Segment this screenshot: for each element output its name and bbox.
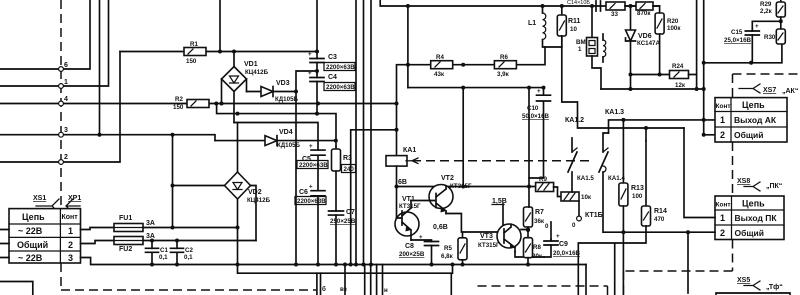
resistor R8 <box>524 238 543 267</box>
svg-text:2: 2 <box>720 228 725 238</box>
svg-text:2: 2 <box>68 240 73 250</box>
svg-text:XS1: XS1 <box>33 195 46 202</box>
wire VD1 bottom rail <box>234 123 318 151</box>
svg-text:6: 6 <box>64 62 68 69</box>
svg-text:КЦ412Б: КЦ412Б <box>247 197 271 204</box>
vertical x407.9 <box>406 4 410 67</box>
svg-text:2: 2 <box>720 130 725 140</box>
svg-text:R30: R30 <box>764 34 776 41</box>
node 4 <box>59 96 68 106</box>
wire input 1 <box>0 0 109 86</box>
svg-text:10: 10 <box>570 26 577 33</box>
svg-text:R24: R24 <box>672 63 684 70</box>
svg-text:С2: С2 <box>185 247 193 254</box>
svg-text:R1: R1 <box>190 41 198 48</box>
dashed boundary left vertical <box>61 0 316 290</box>
wire input 6 <box>0 0 90 69</box>
svg-text:100: 100 <box>632 193 643 200</box>
svg-text:3А: 3А <box>146 233 155 240</box>
rail 6V <box>397 179 536 189</box>
svg-text:VT1: VT1 <box>402 196 415 203</box>
svg-text:КА1.3: КА1.3 <box>605 109 624 116</box>
svg-text:ВМ: ВМ <box>576 39 586 46</box>
wire input 2 <box>0 52 120 163</box>
svg-text:VT2: VT2 <box>441 175 454 182</box>
wire y21.3 <box>752 19 783 28</box>
svg-text:КТ315Г: КТ315Г <box>478 242 500 249</box>
svg-text:50,0×16В: 50,0×16В <box>522 113 550 120</box>
vertical bus C <box>369 0 373 267</box>
vertical x703.7 <box>703 0 705 135</box>
svg-text:С9: С9 <box>559 241 568 248</box>
svg-text:С8: С8 <box>405 243 414 250</box>
label 0 marks <box>545 222 576 230</box>
wire x686 down to X55 <box>687 232 689 293</box>
svg-text:Конт: Конт <box>716 103 731 110</box>
wire mid rail y113 <box>217 104 336 147</box>
resonator BM1 <box>576 4 606 89</box>
partial box bottom left <box>0 282 33 295</box>
label KA1.5 <box>577 175 594 182</box>
svg-text:R4: R4 <box>436 54 444 61</box>
vertical x696.6 top <box>696 0 698 75</box>
svg-text:Цепь: Цепь <box>742 199 765 209</box>
connector XS8 <box>737 178 782 191</box>
diode VD3 <box>247 71 318 267</box>
svg-text:С14×10Б: С14×10Б <box>567 0 590 6</box>
svg-text:Выход ПК: Выход ПК <box>735 213 778 223</box>
dashed boundary right middle <box>732 142 734 196</box>
test point KT1B <box>566 201 603 221</box>
wire VT3 emitter down <box>515 252 544 257</box>
vertical bus A <box>354 0 358 267</box>
node 1 <box>59 79 68 88</box>
svg-text:VD6: VD6 <box>638 33 652 40</box>
connector table X55 top <box>716 293 790 295</box>
svg-text:Конт: Конт <box>62 214 79 221</box>
svg-text:Общий: Общий <box>735 228 764 238</box>
diode VD4 <box>215 129 338 149</box>
svg-text:+: + <box>537 88 541 95</box>
svg-text:870к: 870к <box>637 10 651 17</box>
wire y130 feed <box>349 128 399 267</box>
svg-text:КТ315Г: КТ315Г <box>450 183 472 190</box>
svg-text:R9: R9 <box>539 176 547 183</box>
connector table X51 <box>0 209 81 263</box>
svg-text:+: + <box>309 184 313 191</box>
svg-text:С15: С15 <box>731 29 743 36</box>
wire node3 branch to VD2 left <box>171 135 225 230</box>
svg-text:+: + <box>308 70 312 77</box>
svg-text:36к: 36к <box>534 218 545 225</box>
bottom right vertical x586 <box>585 265 587 295</box>
dashed boundary bottom notch <box>478 286 608 295</box>
svg-text:150: 150 <box>186 58 197 65</box>
svg-text:+: + <box>755 23 759 30</box>
svg-text:R8: R8 <box>533 244 541 251</box>
mechanical link dashed <box>406 158 594 164</box>
svg-text:10к: 10к <box>581 194 592 201</box>
svg-text:3А: 3А <box>146 220 155 227</box>
capacitor C9 <box>544 222 581 257</box>
svg-text:~ 22В: ~ 22В <box>18 253 43 263</box>
wire VT2 emitter to VT3 base <box>446 213 497 232</box>
bottom vertical x452 <box>451 263 455 274</box>
svg-text:1: 1 <box>720 213 725 223</box>
svg-text:Общий: Общий <box>734 130 763 140</box>
wires into X58 <box>684 128 715 218</box>
resistor R29 2,2k <box>760 0 785 21</box>
svg-text:R13: R13 <box>631 185 644 192</box>
svg-text:1: 1 <box>64 79 68 86</box>
svg-text:б: б <box>322 286 326 293</box>
svg-text:25,0×16В: 25,0×16В <box>724 37 752 44</box>
svg-text:6В: 6В <box>398 179 407 186</box>
svg-text:VT3: VT3 <box>480 233 493 240</box>
svg-text:33: 33 <box>611 11 618 18</box>
svg-text:+: + <box>556 233 560 240</box>
wire KA contacts bus y128 <box>562 36 684 141</box>
capacitor C15 <box>724 23 759 63</box>
svg-text:+: + <box>309 143 313 150</box>
svg-text:ХР1: ХР1 <box>68 195 81 202</box>
svg-text:КД105Б: КД105Б <box>275 96 299 103</box>
wire KA1.3 row <box>609 118 716 133</box>
node 2 <box>59 154 68 164</box>
resistor R4 43k <box>431 54 453 78</box>
hatched resistor R9 <box>529 176 558 207</box>
wire row2 to FU2 <box>81 241 115 244</box>
svg-text:„Тф“: „Тф“ <box>766 284 783 291</box>
svg-text:VD1: VD1 <box>244 61 258 68</box>
svg-text:FU1: FU1 <box>119 215 132 222</box>
svg-text:0: 0 <box>572 222 576 229</box>
hatched resistor R10 <box>558 188 592 202</box>
capacitor C4 <box>308 69 355 114</box>
svg-text:2: 2 <box>64 154 68 161</box>
resistor R24 <box>631 63 697 89</box>
bottom bus second level <box>238 265 452 295</box>
svg-text:VD4: VD4 <box>279 129 293 136</box>
svg-text:КТ315Г: КТ315Г <box>399 203 421 210</box>
svg-text:4: 4 <box>64 96 68 103</box>
wire vertical to top <box>99 0 101 135</box>
capacitor C5 <box>297 143 328 191</box>
svg-text:20,0×16В: 20,0×16В <box>553 250 581 257</box>
svg-text:R2: R2 <box>175 96 183 103</box>
svg-text:КТ1Б: КТ1Б <box>585 212 603 219</box>
svg-text:250×25В: 250×25В <box>330 218 356 225</box>
svg-text:XS7: XS7 <box>763 87 776 94</box>
svg-text:КА1.5: КА1.5 <box>577 175 594 182</box>
dashed boundary right bottom <box>623 240 732 295</box>
label 0,6V <box>433 224 448 231</box>
svg-text:С1: С1 <box>160 247 168 254</box>
svg-text:470: 470 <box>654 216 665 223</box>
resistor R1 <box>120 41 318 65</box>
svg-text:0: 0 <box>545 223 549 230</box>
svg-text:КД105Б: КД105Б <box>277 142 301 149</box>
wire y89 <box>601 87 706 91</box>
connector table X57 <box>715 98 787 142</box>
svg-text:43к: 43к <box>434 71 445 78</box>
transistor VT1 <box>395 196 421 240</box>
svg-text:R11: R11 <box>568 18 581 25</box>
resistor R13 <box>619 120 644 295</box>
capacitor C6 <box>295 184 326 267</box>
bridge rectifier VD1 <box>220 50 269 123</box>
svg-text:0,1: 0,1 <box>184 254 193 261</box>
resistor R3 <box>332 147 356 211</box>
svg-text:С10: С10 <box>527 105 539 112</box>
svg-text:3: 3 <box>64 127 68 134</box>
resistor 870k <box>625 2 660 17</box>
capacitor C10 <box>522 86 551 178</box>
contact hook KA1.3 <box>603 166 606 172</box>
svg-text:6,8к: 6,8к <box>441 253 454 260</box>
connector XS7 <box>739 84 798 95</box>
svg-text:+: + <box>419 234 423 241</box>
fuse FU1 <box>114 215 155 232</box>
svg-text:XS5: XS5 <box>737 277 750 284</box>
inductor L1 <box>528 4 562 47</box>
wire input 4 <box>0 103 186 105</box>
svg-text:20к: 20к <box>532 253 543 260</box>
connector table X58 <box>715 196 784 240</box>
wire vertical top x220 <box>218 0 222 54</box>
contact KA1.3 <box>599 133 609 172</box>
svg-text:вз: вз <box>340 286 347 293</box>
resistor 100k vertical <box>655 6 681 77</box>
svg-text:н: н <box>384 287 388 294</box>
svg-text:КЦ412Б: КЦ412Б <box>245 69 269 76</box>
svg-text:КА1: КА1 <box>403 147 416 154</box>
svg-text:С3: С3 <box>328 54 337 61</box>
svg-text:Конт: Конт <box>716 202 731 209</box>
svg-text:1: 1 <box>68 226 73 236</box>
svg-text:КА1.2: КА1.2 <box>565 117 584 124</box>
wire lower y87 <box>408 65 544 187</box>
svg-text:Цепь: Цепь <box>22 212 45 222</box>
node 6 <box>59 62 68 71</box>
wire drop b <box>317 273 321 295</box>
label 1,5V <box>492 198 507 205</box>
svg-text:Общий: Общий <box>17 240 48 250</box>
resistor R7 <box>524 207 545 238</box>
wire y62.8 bus <box>702 44 782 65</box>
svg-text:200×25В: 200×25В <box>399 251 425 258</box>
svg-text:R6: R6 <box>500 54 508 61</box>
capacitor C2 <box>171 241 194 267</box>
label KA1.2 <box>565 117 584 124</box>
svg-text:1: 1 <box>720 115 725 125</box>
wire row3 to bottom bus <box>81 258 587 265</box>
svg-text:FU2: FU2 <box>119 246 132 253</box>
svg-text:3,9к: 3,9к <box>497 71 510 78</box>
svg-text:R29: R29 <box>760 1 772 8</box>
svg-text:Выход АК: Выход АК <box>734 115 777 125</box>
svg-text:12к: 12к <box>675 82 686 89</box>
fuse FU2 <box>114 233 155 253</box>
connector XS5 <box>737 277 783 291</box>
capacitor C3 <box>308 51 355 74</box>
svg-text:+: + <box>308 51 312 58</box>
series capacitor top chain <box>567 0 601 11</box>
svg-text:R20: R20 <box>667 18 679 25</box>
svg-text:~ 22В: ~ 22В <box>18 226 43 236</box>
resistor R6 3,9k <box>494 54 516 78</box>
svg-text:3: 3 <box>68 253 73 263</box>
zener diode VD6 <box>626 4 661 91</box>
svg-text:VD3: VD3 <box>276 80 290 87</box>
label KA1.4 <box>608 175 625 182</box>
resistor R33 <box>606 2 625 18</box>
svg-text:R5: R5 <box>444 245 452 252</box>
transistor VT3 <box>478 204 530 252</box>
connector XS1 <box>33 195 59 213</box>
label KA1.3 <box>605 109 624 116</box>
svg-text:„АК“: „АК“ <box>782 88 798 95</box>
capacitor C8 <box>399 234 439 267</box>
svg-text:Цепь: Цепь <box>742 100 765 110</box>
resistor R11 <box>557 4 580 47</box>
wire X58 row2 <box>603 172 715 234</box>
wire FU2 node to caps <box>143 239 256 243</box>
resistor R2 <box>173 96 395 111</box>
contact KA1.2 <box>568 138 577 192</box>
svg-text:0,1: 0,1 <box>159 254 168 261</box>
svg-text:150: 150 <box>173 104 184 111</box>
svg-text:0,6В: 0,6В <box>433 224 448 231</box>
wire FU1 to VD2 bottom <box>143 226 240 230</box>
connector XP1 <box>66 195 81 213</box>
svg-text:„ПК“: „ПК“ <box>766 183 782 190</box>
relay coil KA1 <box>386 147 416 218</box>
bottom drop wires with labels <box>322 263 388 295</box>
bridge rectifier VD2 <box>225 123 271 267</box>
capacitor C7 <box>329 209 356 267</box>
svg-text:2,2к: 2,2к <box>760 8 773 15</box>
wire 6V feed <box>395 47 546 156</box>
wire row2 X57 <box>702 133 715 137</box>
capacitor C1 <box>146 241 169 267</box>
top corner wire to x408 <box>380 0 659 6</box>
dashed boundary right top <box>733 74 800 97</box>
node 3 <box>59 127 68 137</box>
vertical bus B <box>362 0 366 267</box>
svg-text:С6: С6 <box>299 189 308 196</box>
transistor VT2 <box>411 88 472 214</box>
svg-text:L1: L1 <box>528 20 536 27</box>
vertical from top x317 <box>315 0 319 54</box>
wire row1 to FU1 <box>81 228 115 230</box>
svg-text:XS8: XS8 <box>737 178 750 185</box>
svg-text:1: 1 <box>578 46 582 53</box>
resistor R14 <box>578 141 667 295</box>
svg-text:R7: R7 <box>535 209 544 216</box>
resistor R30 <box>764 21 785 44</box>
svg-text:R14: R14 <box>654 208 667 215</box>
wire input 3 <box>0 133 215 141</box>
svg-text:VD2: VD2 <box>248 189 262 196</box>
svg-text:КС147А: КС147А <box>637 40 660 47</box>
resistor R5 <box>441 232 467 267</box>
svg-text:С4: С4 <box>328 74 337 81</box>
svg-text:100к: 100к <box>667 25 681 32</box>
